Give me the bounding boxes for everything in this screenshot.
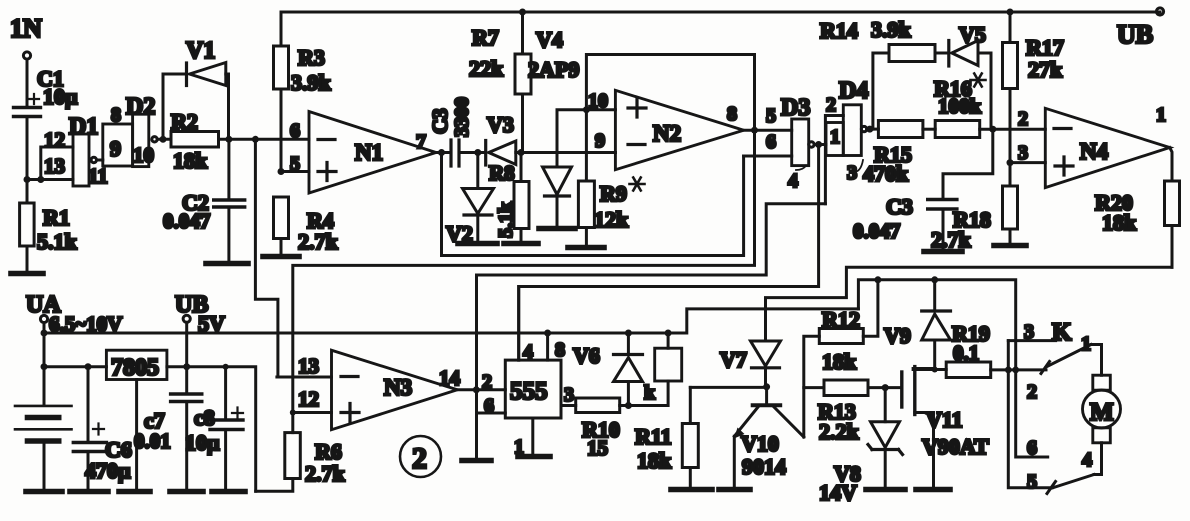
diode V6 bbox=[573, 333, 643, 406]
mosfet V11 V90AT bbox=[902, 367, 989, 488]
svg-text:14: 14 bbox=[439, 366, 461, 390]
svg-text:2: 2 bbox=[1018, 108, 1028, 130]
svg-text:8: 8 bbox=[727, 103, 737, 125]
node R12 top bbox=[874, 276, 881, 283]
svg-text:9: 9 bbox=[110, 136, 121, 161]
wire row D: D3 out to 555 pin4 bbox=[519, 145, 819, 361]
svg-text:V3: V3 bbox=[487, 112, 514, 137]
node V10 base bbox=[763, 383, 770, 390]
resistor R2 bbox=[171, 109, 255, 173]
svg-text:10: 10 bbox=[588, 90, 608, 112]
wire input row to N1 pin6 bbox=[255, 138, 309, 141]
svg-text:5: 5 bbox=[766, 105, 776, 127]
wire row A: N1 out to D3 pin6 bbox=[442, 153, 744, 256]
resistor R6 bbox=[256, 413, 346, 492]
svg-text:K: K bbox=[1052, 319, 1072, 346]
ground V4 bbox=[539, 226, 575, 232]
svg-text:C3: C3 bbox=[886, 194, 913, 219]
svg-text:c8: c8 bbox=[194, 405, 215, 430]
wire pin5 bbox=[281, 170, 309, 173]
svg-text:D1: D1 bbox=[69, 114, 98, 140]
diode V3 bbox=[486, 112, 616, 165]
diode V7 bbox=[720, 341, 781, 387]
ground V11 source bbox=[916, 487, 950, 493]
ground 7805 bbox=[119, 489, 150, 495]
svg-text:3: 3 bbox=[847, 162, 857, 184]
terminal 1N bbox=[10, 14, 42, 59]
wire D4 out riser to R14 bbox=[873, 53, 889, 129]
resistor R1 bbox=[20, 180, 78, 273]
terminal UB 5V bbox=[175, 292, 225, 336]
svg-text:V6: V6 bbox=[573, 343, 600, 368]
node N3 output bbox=[473, 386, 480, 393]
wire D3 out to D4 pin1 bbox=[814, 143, 826, 146]
timer 555 bbox=[482, 339, 574, 458]
resistor R15 bbox=[863, 121, 935, 187]
wire 7805 mid pin to ground bbox=[135, 380, 138, 491]
relay arm bottom bbox=[1047, 475, 1094, 494]
capacitor C3 3300 bbox=[428, 97, 473, 166]
svg-text:10μ: 10μ bbox=[185, 430, 220, 455]
relay labels bbox=[1024, 319, 1092, 493]
node R17 top rail bbox=[1007, 9, 1014, 16]
terminal UB top right bbox=[1117, 8, 1164, 49]
diode V1 bbox=[163, 38, 229, 139]
svg-text:2.7k: 2.7k bbox=[931, 227, 972, 252]
capacitor C6 bbox=[73, 367, 131, 490]
svg-text:R2: R2 bbox=[171, 109, 198, 134]
ground R9 bbox=[568, 245, 604, 251]
gate D4 bbox=[826, 78, 868, 184]
relay arm top bbox=[1041, 345, 1091, 374]
wire N3 pin12 bbox=[293, 411, 332, 414]
svg-text:27k: 27k bbox=[1028, 57, 1063, 82]
svg-text:14V: 14V bbox=[819, 480, 857, 505]
ground R4 bbox=[263, 254, 299, 260]
svg-text:2: 2 bbox=[412, 442, 427, 475]
svg-text:3300: 3300 bbox=[451, 97, 473, 137]
wire N3 pin13 bbox=[277, 376, 332, 379]
gate D3 bbox=[766, 95, 814, 192]
svg-text:9: 9 bbox=[595, 130, 605, 152]
svg-text:C3: C3 bbox=[428, 108, 452, 134]
ground V10 emitter bbox=[719, 487, 750, 493]
node C6 top bbox=[85, 363, 92, 370]
svg-text:M: M bbox=[1090, 399, 1114, 426]
op-amp N2 bbox=[588, 90, 744, 170]
node N1 pin5 bbox=[278, 168, 285, 175]
capacitor c7 bbox=[134, 367, 202, 490]
svg-text:R11: R11 bbox=[635, 424, 672, 449]
ground V8 bbox=[866, 487, 905, 493]
svg-text:6: 6 bbox=[484, 395, 494, 417]
svg-text:V10: V10 bbox=[741, 431, 779, 456]
wire base row R11 to V7 node bbox=[690, 386, 766, 389]
ground R11 bbox=[671, 487, 712, 493]
svg-text:V4: V4 bbox=[536, 27, 563, 52]
wire UA down bbox=[43, 323, 46, 406]
wire V10 collector riser bbox=[804, 336, 820, 437]
svg-text:13: 13 bbox=[298, 354, 319, 378]
svg-text:6: 6 bbox=[766, 131, 776, 153]
svg-text:R9: R9 bbox=[600, 181, 627, 206]
row E rail extension to relay bbox=[858, 280, 1015, 370]
svg-text:10μ: 10μ bbox=[43, 84, 78, 109]
svg-text:18k: 18k bbox=[637, 448, 672, 473]
svg-text:N4: N4 bbox=[1080, 139, 1109, 164]
svg-text:R12: R12 bbox=[822, 307, 860, 332]
svg-text:V5: V5 bbox=[959, 22, 986, 47]
wire row B: N2 out to N3 pin12 bbox=[293, 130, 755, 412]
wire D2 out to R2 bbox=[157, 138, 171, 141]
node R7/R8 bbox=[518, 149, 525, 156]
svg-text:1: 1 bbox=[830, 126, 840, 148]
resistor R7 bbox=[469, 12, 531, 153]
svg-text:V90AT: V90AT bbox=[922, 434, 989, 459]
svg-text:4: 4 bbox=[523, 341, 533, 363]
node input junction bbox=[24, 176, 31, 183]
node R16 out bbox=[989, 126, 996, 133]
relay contact verticals bbox=[1008, 341, 1052, 488]
svg-text:8: 8 bbox=[111, 104, 121, 126]
wire 555 pin1 to ground bbox=[531, 418, 534, 455]
wire pin3 bbox=[1010, 161, 1045, 164]
svg-text:5.1k: 5.1k bbox=[37, 229, 78, 254]
wire 7805 input bbox=[44, 365, 106, 368]
wire V3 row to N2 pin9 (passes under risers) bbox=[521, 151, 615, 154]
svg-text:5V: 5V bbox=[198, 311, 225, 336]
svg-text:R3: R3 bbox=[298, 45, 325, 70]
wire 555 pin3 to R10 bbox=[561, 404, 576, 407]
svg-text:15: 15 bbox=[587, 436, 608, 460]
svg-text:12k: 12k bbox=[594, 207, 629, 232]
terminal UA bbox=[26, 292, 122, 336]
wire drain node row R19 bbox=[913, 369, 946, 370]
node R10 out bbox=[625, 402, 632, 409]
svg-text:R14: R14 bbox=[820, 18, 858, 43]
relay coil k bbox=[628, 333, 681, 406]
svg-text:22k: 22k bbox=[469, 56, 504, 81]
gate D2 bbox=[103, 94, 157, 167]
svg-text:10: 10 bbox=[133, 143, 154, 167]
svg-text:2: 2 bbox=[482, 371, 492, 393]
svg-text:5: 5 bbox=[1027, 471, 1037, 493]
svg-text:2: 2 bbox=[826, 94, 836, 116]
svg-text:9014: 9014 bbox=[742, 454, 786, 479]
node C2 top bbox=[225, 136, 232, 143]
op-amp N1 bbox=[290, 112, 436, 194]
resistor R17 bbox=[1003, 12, 1064, 163]
svg-text:3: 3 bbox=[1018, 142, 1028, 164]
svg-text:0.1: 0.1 bbox=[953, 341, 979, 365]
svg-text:470k: 470k bbox=[863, 161, 909, 186]
capacitor C2 bbox=[163, 139, 245, 262]
svg-text:UB: UB bbox=[1117, 20, 1153, 49]
wire C3 to V3 bbox=[465, 151, 485, 154]
regulator 7805 bbox=[106, 350, 166, 381]
svg-text:D2: D2 bbox=[126, 94, 155, 120]
resistor R3 bbox=[274, 12, 332, 172]
svg-text:2: 2 bbox=[1027, 381, 1037, 403]
node V2 top bbox=[474, 149, 481, 156]
svg-text:V7: V7 bbox=[720, 347, 747, 372]
node N2 output bbox=[751, 127, 758, 134]
zener V8 14V bbox=[819, 388, 903, 505]
svg-text:3: 3 bbox=[1024, 321, 1034, 343]
wire D4 pin2 riser bbox=[825, 116, 843, 204]
diode V4 2AP9 bbox=[528, 27, 586, 227]
ground c7 bbox=[170, 489, 203, 495]
svg-text:470μ: 470μ bbox=[85, 458, 131, 483]
wire branch to D1 pin12 bbox=[41, 147, 73, 180]
resistor R10 bbox=[576, 398, 629, 460]
capacitor c8 bbox=[185, 367, 243, 490]
ground bar below pin6 bbox=[462, 458, 491, 464]
op-amp N3 bbox=[298, 350, 461, 430]
ground R18 bbox=[994, 243, 1026, 249]
wire row F: R20 to V7 bbox=[766, 267, 1173, 341]
svg-text:2.7k: 2.7k bbox=[298, 229, 339, 254]
resistor R9 bbox=[578, 110, 644, 246]
svg-text:555: 555 bbox=[510, 378, 548, 405]
resistor R13 bbox=[818, 380, 901, 444]
wire 555 pin8 riser to rail bbox=[546, 333, 549, 360]
svg-text:6: 6 bbox=[290, 120, 300, 142]
ground V2 bbox=[458, 241, 497, 247]
ground C3 bbox=[924, 249, 962, 255]
relay K contact 3 row bbox=[1008, 339, 1055, 342]
svg-text:N1: N1 bbox=[355, 140, 383, 165]
ground R1 bbox=[11, 271, 43, 277]
svg-text:5: 5 bbox=[290, 153, 300, 175]
svg-text:D4: D4 bbox=[839, 78, 868, 104]
svg-text:3.9k: 3.9k bbox=[291, 70, 332, 95]
ground battery bbox=[26, 489, 62, 495]
svg-text:100k: 100k bbox=[938, 94, 982, 118]
svg-text:R7: R7 bbox=[472, 25, 499, 50]
svg-text:18k: 18k bbox=[822, 349, 857, 374]
svg-text:6.5~10V: 6.5~10V bbox=[49, 312, 122, 336]
svg-text:1: 1 bbox=[1156, 104, 1166, 126]
node D3 out bbox=[815, 141, 822, 148]
node D4 out bbox=[866, 126, 873, 133]
svg-text:0.01: 0.01 bbox=[134, 429, 171, 453]
node R7 top rail bbox=[519, 9, 526, 16]
resistor R11 bbox=[635, 387, 698, 488]
wire to 555 pin6 and bar bbox=[477, 390, 506, 460]
svg-text:6: 6 bbox=[1027, 437, 1037, 459]
svg-text:12: 12 bbox=[44, 128, 65, 152]
wire motor bottom to arm bbox=[1094, 443, 1102, 475]
wire N3 out to 555 pin2 bbox=[457, 388, 505, 391]
node N1 output bbox=[438, 149, 445, 156]
capacitor C1 bbox=[14, 66, 79, 117]
svg-text:V1: V1 bbox=[186, 38, 215, 64]
resistor R16 bbox=[934, 73, 1045, 137]
ground R8 bbox=[504, 241, 538, 247]
svg-text:N3: N3 bbox=[384, 375, 412, 400]
svg-text:11: 11 bbox=[88, 164, 108, 188]
svg-text:V9: V9 bbox=[884, 323, 911, 348]
svg-text:D3: D3 bbox=[781, 95, 810, 121]
ground c8 bbox=[212, 489, 245, 495]
wire node to D1 pin13 bbox=[27, 178, 73, 181]
resistor R14 bbox=[820, 17, 948, 62]
node gate/zener bbox=[882, 384, 889, 391]
wire 1N to C1 bbox=[26, 59, 29, 105]
figure number 2 bbox=[400, 436, 441, 477]
svg-text:2.7k: 2.7k bbox=[305, 461, 346, 486]
svg-text:1N: 1N bbox=[10, 14, 42, 43]
svg-text:7: 7 bbox=[416, 131, 426, 153]
svg-text:4: 4 bbox=[788, 170, 798, 192]
motor M bbox=[1083, 375, 1121, 443]
feedback wire N2 output to pin10 bbox=[586, 55, 754, 131]
svg-text:3.9k: 3.9k bbox=[871, 17, 912, 42]
node D2 out bbox=[160, 136, 167, 143]
diode V2 bbox=[446, 153, 494, 247]
svg-text:2.2k: 2.2k bbox=[819, 419, 860, 444]
svg-text:12: 12 bbox=[298, 387, 319, 411]
wire 555 pin4 riser to row D bbox=[517, 287, 520, 361]
svg-text:3: 3 bbox=[564, 384, 574, 406]
power rail UA bbox=[44, 309, 858, 333]
diode V5 bbox=[949, 22, 991, 129]
resistor R8 bbox=[489, 153, 529, 243]
wire row C: D4 pin2 to N3 output node bbox=[477, 204, 826, 390]
resistor R20 bbox=[1095, 148, 1180, 268]
ground C2 bbox=[206, 261, 248, 267]
svg-text:2AP9: 2AP9 bbox=[528, 57, 579, 82]
svg-text:V11: V11 bbox=[926, 407, 963, 432]
node N2 pin10 bbox=[583, 106, 590, 113]
wire pin10 bbox=[586, 108, 615, 111]
svg-text:8: 8 bbox=[555, 339, 565, 361]
wire R13 left bbox=[804, 386, 824, 389]
wire arm1 to motor top bbox=[1091, 345, 1102, 376]
wire C1 to node bbox=[26, 118, 29, 180]
svg-text:13: 13 bbox=[44, 154, 65, 178]
svg-text:k: k bbox=[644, 382, 656, 404]
capacitor C3 0.047 bbox=[853, 129, 993, 250]
battery bbox=[15, 406, 72, 490]
op-amp N4 bbox=[1018, 104, 1170, 188]
diode V9 bbox=[884, 280, 951, 370]
wire D1 out to D2 bbox=[97, 159, 103, 162]
wire 7805 output line bbox=[167, 367, 256, 492]
svg-text:5.1k: 5.1k bbox=[495, 201, 517, 238]
wire UB down to 7805 out bbox=[185, 322, 188, 366]
wire D4 out to R15 bbox=[867, 128, 879, 131]
svg-text:0.047: 0.047 bbox=[163, 209, 210, 233]
svg-text:R8: R8 bbox=[489, 161, 515, 185]
resistor R19 bbox=[946, 321, 1046, 378]
svg-text:18k: 18k bbox=[1102, 210, 1137, 235]
transistor V10 9014 bbox=[734, 387, 804, 488]
svg-text:0.047: 0.047 bbox=[853, 219, 900, 243]
svg-text:R1: R1 bbox=[43, 205, 70, 230]
resistor R12 bbox=[819, 280, 878, 374]
wire N2 out to D3 pin5 bbox=[744, 129, 792, 132]
svg-text:7805: 7805 bbox=[111, 355, 159, 381]
resistor R4 bbox=[274, 197, 339, 256]
wire D3 pin6 bbox=[744, 155, 792, 158]
svg-text:18k: 18k bbox=[173, 148, 208, 173]
svg-text:N2: N2 bbox=[653, 121, 681, 146]
node N4 pin3 bbox=[1007, 159, 1014, 166]
top power rail UB bbox=[281, 11, 1160, 14]
ground C6 bbox=[70, 489, 108, 495]
node feedback tap bbox=[252, 136, 259, 143]
svg-text:4: 4 bbox=[1082, 449, 1092, 471]
gate D1 bbox=[44, 114, 108, 188]
resistor R18 bbox=[931, 163, 1018, 252]
wire feedback tap to N3 pin13 (jog) bbox=[255, 139, 278, 377]
